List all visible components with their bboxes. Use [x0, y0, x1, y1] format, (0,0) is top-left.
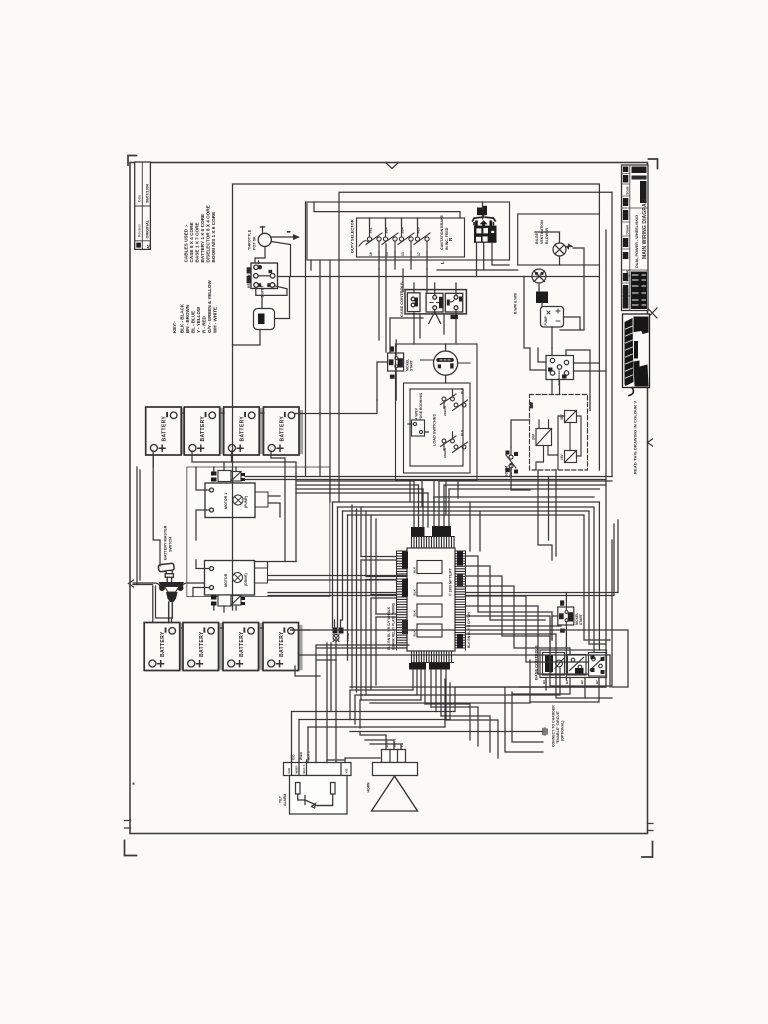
transformer internal wires [530, 401, 582, 469]
wire m2 top bundle [255, 562, 297, 569]
wire batt1 pos down [152, 451, 154, 467]
wire blower lead [535, 232, 560, 265]
bilge area enclosure [518, 214, 600, 265]
svg-text:BLK: BLK [413, 566, 417, 573]
svg-text:B2: B2 [580, 680, 584, 684]
wire duty top leads [370, 218, 418, 225]
wire right fan 1 [466, 556, 553, 640]
svg-text:3&4: 3&4 [384, 227, 388, 233]
case controls enclosure [405, 290, 466, 314]
wire bottom loops left [350, 690, 421, 728]
svg-text:G/Y - GREEN & YELLOW: G/Y - GREEN & YELLOW [207, 280, 212, 333]
wire right fan 3 [466, 576, 551, 650]
fuse F1 30A [254, 309, 275, 330]
svg-text:MAIN WIRING DIAGRAM: MAIN WIRING DIAGRAM [642, 199, 648, 259]
wire bilge right leads [560, 248, 584, 330]
svg-text:CONNECT TO CHARGER: CONNECT TO CHARGER [552, 705, 556, 747]
wire hornpush leads [445, 344, 447, 383]
corner mark top-left [128, 156, 137, 166]
relay block body U1 [407, 548, 455, 651]
wire batt4 neg right [295, 400, 377, 414]
horn block labels [385, 739, 404, 748]
wire m2 right wires [268, 576, 408, 581]
wire y645 lines [316, 645, 409, 763]
wire case control bus [390, 318, 423, 352]
wire master up wire [153, 455, 160, 566]
wire cavitation top lead [482, 202, 484, 219]
svg-text:17: 17 [417, 252, 421, 256]
charger transformer dashed enclosure [530, 395, 588, 471]
svg-text:16: 16 [369, 252, 373, 256]
battery master switch SW-M [133, 563, 210, 622]
wire vert x285 [284, 480, 286, 561]
boom switch S5 [505, 448, 519, 477]
corner mark bottom-left [125, 841, 137, 856]
wire duty sw leads [379, 252, 427, 269]
svg-text:Scale: Scale [626, 186, 630, 195]
svg-text:CAVITATION BRAKE: CAVITATION BRAKE [440, 214, 444, 250]
notes: cables used list [184, 205, 217, 262]
relay block bottom connector blobs [409, 663, 450, 670]
wire dashed box down leads [538, 470, 556, 560]
wire right fan 8 [466, 626, 613, 698]
wire vert x327 [326, 643, 328, 763]
load switch pair lower [441, 429, 468, 458]
svg-text:DUAL POWER - WHEEL/SKID: DUAL POWER - WHEEL/SKID [635, 215, 639, 268]
base controls label [534, 645, 539, 680]
wire vert x331 [330, 643, 332, 712]
wire cavitation leads [477, 243, 510, 277]
relay RL4 [413, 624, 443, 637]
key switch S1 [247, 263, 278, 298]
wire batt row1 bottom wires [192, 451, 296, 477]
nickel start relay K2 (lower) [558, 600, 583, 633]
drawing frame border [130, 163, 648, 834]
duty selector switch 2 [382, 225, 398, 256]
boom controls enclosure loops [396, 344, 478, 481]
wire bottom h 760 [327, 759, 345, 761]
right edge lower ticks [648, 824, 654, 831]
wire cs2 left leads [524, 277, 546, 371]
wire batt row2 b8neg right [291, 630, 629, 687]
case controls label [399, 282, 404, 317]
svg-text:Revision: Revision [138, 224, 142, 237]
wire x1 leads [335, 620, 341, 763]
wire cross h 502 [333, 502, 600, 650]
wire right fan 2 [466, 566, 546, 620]
relay block right wire labels [457, 552, 471, 649]
relay block top terminal comb [412, 537, 455, 549]
wire nickel2 leads [552, 593, 566, 681]
wire horn feeds [360, 732, 401, 750]
wire bottom h 695 [360, 668, 560, 695]
tilt alarm terminal bar [284, 763, 352, 776]
wire vert x512 bottom [512, 692, 543, 742]
svg-text:BATTERY 1 X 6 CORE: BATTERY 1 X 6 CORE [200, 214, 205, 263]
wire cross h 515 [348, 515, 611, 640]
wire m2 terminal wires [193, 560, 210, 597]
wire master down wires [153, 586, 172, 623]
svg-text:BN - BROWN: BN - BROWN [185, 305, 190, 333]
wire left bundle v2 [361, 560, 376, 700]
svg-text:BLK - BLACK: BLK - BLACK [180, 303, 185, 333]
wire fuse out right [275, 277, 290, 319]
wire master left to frame [133, 584, 153, 586]
duty selector enclosure box [307, 202, 510, 260]
battery B6 [183, 623, 219, 671]
battery B3 [224, 407, 260, 455]
traction connector J1 [473, 206, 497, 243]
wire m1 right bundle [245, 477, 612, 480]
right edge zone tick 2 [648, 439, 653, 446]
svg-text:30/07/1994: 30/07/1994 [145, 183, 149, 203]
horn speaker H1 [367, 776, 418, 811]
right edge zone tick 1 [648, 308, 658, 318]
throttle pot R1 [248, 227, 300, 277]
wire cross pair y592 [268, 520, 618, 596]
case controls switch C [445, 283, 462, 344]
svg-text:BL - BLUE: BL - BLUE [191, 311, 196, 333]
svg-text:WH - WHITE: WH - WHITE [213, 307, 218, 333]
svg-text:16V: 16V [560, 453, 564, 460]
svg-text:READ THIS DRAWING IN COLOUR V: READ THIS DRAWING IN COLOUR V [633, 401, 638, 474]
base controls pin labels [542, 680, 599, 684]
wire batt row1 pos2 [232, 451, 286, 480]
svg-text:LOAD SWITCHES: LOAD SWITCHES [433, 414, 437, 446]
svg-text:BLK: BLK [460, 429, 464, 436]
left edge zone tick [129, 580, 134, 587]
wire cs2 right leads [560, 363, 607, 395]
wire right fan 4 [466, 586, 571, 655]
tilt alarm label [279, 794, 288, 806]
wire m1 protrusion wires [268, 496, 280, 517]
wire horn bottom [345, 758, 380, 763]
svg-text:START: START [579, 614, 583, 625]
svg-text:A1: A1 [146, 244, 150, 249]
wire keyswitch to fuse [256, 286, 287, 309]
svg-text:(DRIVE): (DRIVE) [244, 573, 248, 586]
base controls enclosure [540, 650, 607, 678]
bilge ventilation blower label [535, 220, 549, 244]
wire left bundle v [361, 507, 376, 614]
wire tilt feeds [292, 755, 307, 763]
wire m2 contactor bottom [214, 606, 236, 613]
wire case controls leads down [420, 314, 444, 338]
wire batt row2 wires [182, 628, 321, 676]
wire rail x305 [305, 202, 307, 477]
svg-text:MOTOR: MOTOR [224, 573, 228, 587]
connect to charger note [552, 705, 565, 747]
relay block left wire labels [387, 552, 408, 651]
svg-text:MOTOR 1: MOTOR 1 [224, 493, 228, 509]
svg-text:BLK 1: BLK 1 [302, 765, 306, 774]
svg-text:2&4: 2&4 [400, 227, 404, 233]
wire throttle to keyswitch [258, 261, 260, 264]
svg-text:D/SELECTOR 8 X 4 CORE: D/SELECTOR 8 X 4 CORE [206, 205, 211, 262]
svg-text:CASE 8 X 4 CORE: CASE 8 X 4 CORE [189, 222, 194, 262]
motor/battery enclosure box [187, 467, 330, 597]
svg-text:24BRN: 24BRN [443, 406, 447, 416]
wire bottom loops right [425, 704, 498, 758]
relay RL1 [413, 561, 443, 574]
wire cross h 511 [343, 511, 607, 644]
svg-text:R - RED: R - RED [202, 316, 207, 334]
svg-text:BATTERY MASTER: BATTERY MASTER [164, 525, 168, 560]
load switches label [433, 414, 437, 446]
svg-text:BLOWER: BLOWER [545, 228, 549, 244]
revision table (top-left) [135, 162, 151, 249]
svg-text:BASE 1 X 7 CORE: BASE 1 X 7 CORE [195, 222, 200, 262]
svg-text:24V: 24V [532, 433, 536, 440]
battery B8 [263, 623, 299, 671]
svg-text:Y - YELLOW: Y - YELLOW [196, 306, 201, 333]
bilge pump P1 [541, 307, 564, 328]
wire top bundle h1 [296, 481, 428, 493]
svg-text:B.W/R & W/B: B.W/R & W/B [514, 293, 518, 314]
wire right fan 6 [466, 606, 589, 674]
svg-text:TILT: TILT [279, 795, 283, 803]
svg-text:PUMP: PUMP [544, 315, 548, 325]
svg-text:CABLES USED :-: CABLES USED :- [184, 224, 189, 262]
svg-text:16V: 16V [530, 401, 534, 408]
wire boxA down leads [311, 260, 330, 502]
cavitation brake label [440, 214, 453, 264]
svg-text:HORN: HORN [367, 782, 371, 793]
relay RL3 [413, 604, 443, 617]
charger enable stub wire [350, 728, 547, 735]
wire bottom h 687 [350, 686, 606, 688]
nickel start relay K1 (upper) [388, 346, 414, 379]
wire nickel1 leads [377, 340, 396, 400]
svg-text:G/O: G/O [287, 767, 291, 773]
nav light lamp L1 [532, 269, 546, 289]
svg-text:KEY SW: KEY SW [247, 274, 251, 288]
boom limit box [408, 420, 429, 436]
wire duty bus left [379, 244, 427, 352]
top edge zone tick [386, 163, 399, 169]
svg-text:BILGE: BILGE [535, 232, 539, 244]
manufacturer logo block [623, 314, 650, 396]
svg-text:(PUMP): (PUMP) [244, 496, 248, 508]
wire right rail A [520, 230, 606, 687]
contactor CT2 below motor M2 [211, 595, 245, 606]
wire fuse out bottom [233, 330, 261, 346]
svg-text:1&1: 1&1 [368, 227, 372, 233]
corner mark top-right [649, 159, 658, 169]
wire batt row1 links [181, 412, 264, 414]
relay block right terminal comb [455, 551, 466, 650]
duty selector switch 1 [366, 225, 382, 256]
wire vert x505 bottom [505, 688, 543, 752]
base controls switch C [589, 653, 607, 677]
battery B5 [144, 623, 180, 671]
battery ghost shadows row2 [182, 625, 301, 668]
svg-text:ORIGINAL: ORIGINAL [145, 219, 149, 238]
contactor CT1 above motor M1 [211, 471, 245, 482]
transformer T1 24V [532, 420, 552, 446]
wire m1 terminal wires [196, 467, 210, 540]
svg-text:KEY:-: KEY:- [172, 321, 177, 333]
wire block bottom pins [413, 670, 446, 721]
wire left bundle h [361, 557, 397, 618]
svg-text:ALARM: ALARM [283, 794, 287, 806]
duty selector label [350, 219, 369, 253]
svg-text:BLK: BLK [413, 589, 417, 596]
wire navlight lead [539, 289, 542, 307]
left edge lower ticks [125, 821, 131, 829]
svg-text:BLK: BLK [460, 387, 464, 394]
svg-text:(OPTIONAL): (OPTIONAL) [561, 721, 565, 741]
svg-text:POT 5K: POT 5K [253, 236, 257, 250]
svg-text:36V: 36V [560, 413, 564, 420]
wire cross v left [333, 502, 348, 660]
svg-text:24BRN: 24BRN [443, 448, 447, 458]
wire top bundle h2 [434, 481, 612, 497]
wire block top pins up [414, 481, 449, 527]
relay block top connector blobs [411, 526, 451, 537]
wire right fan 7 [466, 540, 613, 686]
note: read this drawing in colour [633, 401, 638, 474]
wire bottom long h [292, 679, 607, 727]
svg-text:BOOM N/S 1 X 6 CORE: BOOM N/S 1 X 6 CORE [211, 212, 216, 263]
wire boom box down leads [410, 481, 458, 516]
svg-text:8 BANK RELAY PLATE WIRING: 8 BANK RELAY PLATE WIRING [392, 602, 396, 650]
transformer T3 16V [560, 451, 577, 463]
battery B1 [146, 407, 182, 455]
wire right fan 5 [466, 596, 589, 662]
wire pump leads [552, 317, 580, 348]
connector X1 [333, 628, 351, 642]
wire keyswitch rail y276 [278, 276, 600, 278]
boom 4 w/ev label [415, 392, 424, 431]
svg-text:BLK: BLK [413, 610, 417, 617]
wire inner frame top/left [233, 184, 600, 610]
motor M2 (drive) [205, 561, 268, 596]
battery charger socket CS2 [546, 356, 574, 386]
wire rail y211 [314, 202, 460, 218]
corner mark bottom-right [642, 842, 653, 858]
svg-text:BLK BN BL Y R G/Y WH BL: BLK BN BL Y R G/Y WH BLK [387, 606, 391, 650]
svg-text:THROTTLE: THROTTLE [248, 229, 252, 250]
transformer T2 36V [560, 411, 577, 423]
load switch pair upper [441, 387, 468, 416]
battery ghost shadows row1 [183, 410, 301, 452]
svg-text:"ENABLE" CIRCUIT: "ENABLE" CIRCUIT [556, 710, 560, 744]
horn push button PB1 [421, 351, 471, 375]
svg-text:W/BR: W/BR [295, 765, 299, 774]
wire bottom loop verts [292, 712, 309, 763]
wire rail y270 cavitation-bilge [437, 269, 518, 271]
duty selector switch 4 [414, 225, 430, 256]
battery master switch label [164, 525, 173, 560]
case controls switch B [426, 283, 443, 324]
tilt alarm body A1 [290, 776, 348, 815]
tilt alarm bar labels [287, 751, 349, 773]
svg-text:4&6: 4&6 [416, 227, 420, 233]
battery B2 [184, 407, 220, 455]
duty selector switch 3 [398, 225, 414, 256]
wire vert x296 [295, 477, 297, 562]
svg-text:Y/B: Y/B [345, 768, 349, 774]
horn terminal block [373, 750, 418, 776]
wire rail x612 down [611, 192, 613, 476]
wire boomswitch leads [511, 420, 530, 490]
wire left edge wires [137, 467, 140, 585]
wire right rail B [339, 192, 612, 502]
motor M1 (pump) [205, 483, 268, 518]
svg-text:START: START [410, 360, 414, 371]
wire cs2 top link [552, 348, 590, 411]
relay block bottom terminal comb [412, 651, 454, 663]
wire m1 contactor top [214, 462, 236, 472]
wire left of comb verts [352, 505, 357, 692]
bilge pump fuse block [536, 292, 548, 304]
wire right upfan [470, 502, 480, 551]
svg-text:DUTY SELECTOR: DUTY SELECTOR [350, 219, 355, 253]
case controls switch A [407, 283, 420, 344]
relay RL2 [413, 583, 443, 596]
svg-text:30: 30 [261, 319, 265, 323]
title block strip [622, 165, 649, 311]
base controls switch B [568, 655, 587, 676]
svg-text:Drawn: Drawn [626, 225, 630, 235]
blower motor M3 [553, 243, 573, 256]
wire bottom h 703 [370, 660, 530, 703]
battery B4 [264, 407, 300, 455]
wire base controls down stubs [512, 678, 599, 703]
svg-text:© 1993 NP TILIFT: © 1993 NP TILIFT [449, 567, 453, 596]
svg-text:L: L [440, 261, 445, 264]
wire inner frame right lower [598, 265, 600, 470]
svg-text:13: 13 [401, 252, 405, 256]
notes: colour key list [172, 280, 218, 333]
base controls switch A [543, 653, 565, 676]
svg-text:BILGE: BILGE [543, 292, 547, 302]
svg-text:Date: Date [138, 195, 142, 202]
relay block left terminal comb [397, 551, 408, 650]
svg-text:SWITCH: SWITCH [169, 537, 173, 552]
wire cross h 507 [338, 507, 595, 652]
wire label W/R BLK/W [514, 293, 518, 314]
stray scan dot [133, 783, 135, 785]
battery B7 [223, 623, 259, 671]
